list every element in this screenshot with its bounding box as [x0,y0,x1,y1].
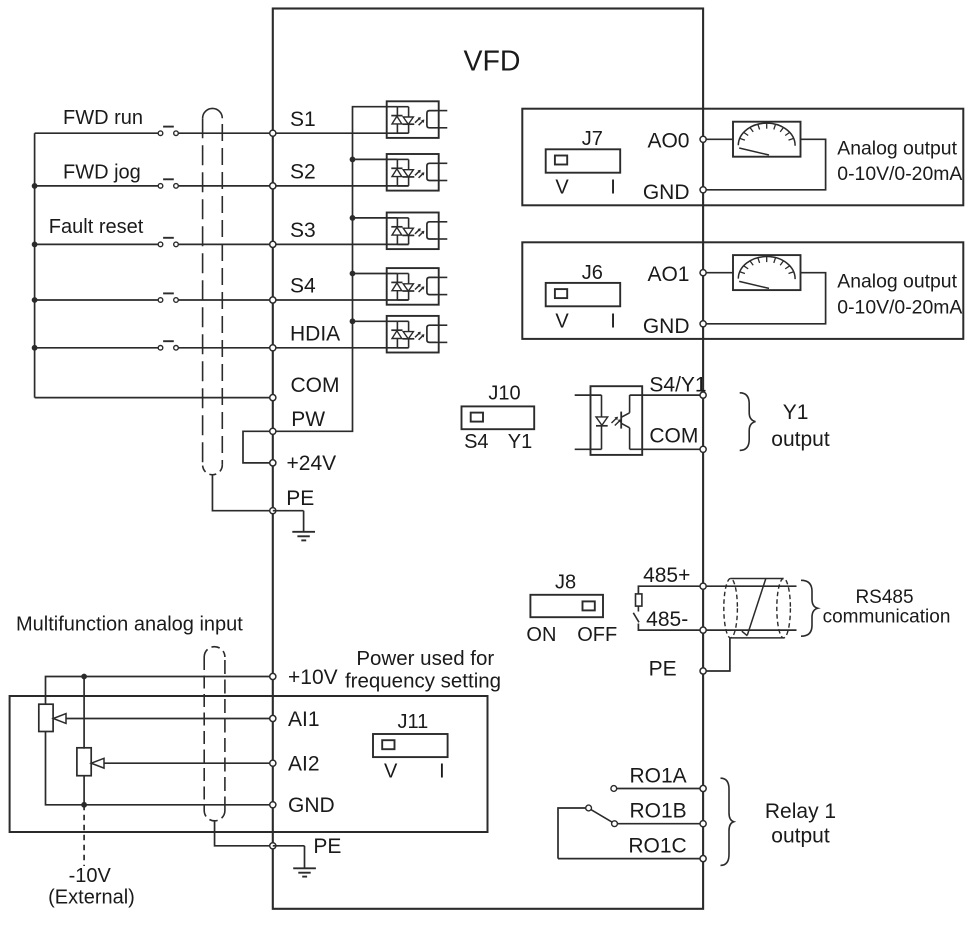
optocoupler S2 [387,154,448,191]
label AO0 [647,130,689,153]
svg-text:FWD run: FWD run [63,107,143,129]
terminal S3 [270,241,276,247]
label J10 [488,383,520,405]
svg-text:GND: GND [643,181,690,204]
label S4 [290,275,316,298]
svg-text:RS485: RS485 [855,587,913,608]
switch S3 input [158,238,178,247]
wire PW to opto bus [273,107,398,432]
svg-text:AI1: AI1 [288,708,320,731]
terminal S4/Y1 [700,392,706,398]
terminal HDIA [270,345,276,351]
svg-text:S4: S4 [464,431,488,453]
wire opto branch S3 [353,217,398,219]
wire AI2 with wiper arrow [91,758,273,768]
svg-text:V: V [384,761,398,783]
label 485+ [643,564,690,587]
wire S3 switch to terminal [179,243,273,245]
optocoupler HDIA [387,316,448,353]
svg-text:J11: J11 [398,711,429,733]
wire AO0 to meter [703,138,733,140]
junction pot2 / GND [81,802,87,808]
svg-text:0-10V/0-20mA: 0-10V/0-20mA [837,296,962,318]
analog output box AO1 [522,242,963,339]
terminal +24V [270,460,276,466]
wire 485+ through shield [703,585,796,587]
label Analog output (AO1) [837,271,957,293]
analog output box AO0 [522,109,963,206]
svg-text:S3: S3 [290,219,316,242]
wire switch to 485- [638,624,703,631]
label RO1A [630,764,687,787]
junction bus / S4 row [32,297,38,303]
terminal 485- [700,627,706,633]
label COM [291,374,340,397]
optocoupler S3 [387,213,448,250]
svg-text:AO0: AO0 [647,130,689,153]
svg-text:+24V: +24V [287,452,337,475]
label 485- [646,608,688,631]
label S2 [290,161,316,184]
svg-text:PW: PW [291,408,325,431]
label S3 [290,219,316,242]
jumper J10 [462,406,535,429]
wire COM [35,397,273,399]
label ON [526,624,556,646]
terminal GND (AO0) [700,187,706,193]
VFD enclosure box [273,9,703,909]
svg-text:I: I [610,177,616,199]
wire 485- through shield [703,629,796,631]
wire PW to +24V loop [243,431,273,463]
wire pot2 top [83,677,85,749]
svg-text:GND: GND [643,315,690,338]
wire S4 switch to terminal [179,299,273,301]
svg-text:COM: COM [649,425,698,448]
wire shield drain to PE [703,638,730,671]
svg-text:output: output [771,825,830,848]
svg-text:J8: J8 [555,571,576,593]
label frequency setting [345,669,501,692]
svg-text:S4: S4 [290,275,316,298]
switch S4 input [158,293,178,302]
label Y1 (J10) [508,431,532,453]
label Y1 output line2 [771,428,830,451]
label GND (analog) [288,794,335,817]
terminal AI2 [270,760,276,766]
wire opto branch S2 [353,158,398,160]
wire RO1B [617,823,703,825]
label V (J11) [384,761,398,783]
jumper J7 [546,149,621,172]
svg-text:PE: PE [649,658,677,681]
svg-text:AO1: AO1 [647,263,689,286]
shielded cable (analog inputs) [204,647,225,821]
svg-text:frequency setting: frequency setting [345,669,501,692]
label GND (AO0) [643,181,690,204]
wire S1 from bus to switch [35,132,158,134]
junction bus / HDIA row [32,345,38,351]
terminal PE (RS485) [700,668,706,674]
label -10V [69,865,112,887]
wire HDIA terminal to optocoupler [273,347,409,349]
wire relay common [558,808,586,859]
terminal PE [270,508,276,514]
terminal S1 [270,130,276,136]
svg-text:J6: J6 [582,262,603,284]
label RO1C [628,834,686,857]
svg-text:0-10V/0-20mA: 0-10V/0-20mA [837,163,962,185]
svg-text:Relay 1: Relay 1 [765,800,836,823]
wire S3 from bus to switch [35,243,158,245]
svg-text:Power used for: Power used for [356,647,494,670]
label +10V [288,666,338,689]
svg-text:ON: ON [526,624,556,646]
label 0-10V/0-20mA (AO0) [837,163,962,185]
svg-text:(External): (External) [48,886,135,908]
wire pot1 bottom to GND [46,732,273,805]
shielded cable (digital inputs) [203,108,223,474]
optocoupler S4 [387,268,448,305]
svg-text:I: I [610,310,616,332]
wire -10V external (dashed) [83,805,85,866]
jumper J6 [546,283,621,306]
potentiometer 1 (AI1) [39,704,53,731]
svg-text:-10V: -10V [69,865,112,887]
terminal PE (analog) [270,843,276,849]
wire resistor stub [637,606,639,611]
junction opto bus / S2 [350,157,356,163]
svg-text:OFF: OFF [577,624,617,646]
label OFF [577,624,617,646]
wire S1 terminal to optocoupler [273,132,409,134]
label Analog output (AO0) [837,137,957,159]
terminal RO1B [700,821,706,827]
svg-text:S1: S1 [290,108,316,131]
label communication [823,607,951,628]
wire meter to GND (AO0) [703,139,826,190]
label J6 [582,262,603,284]
wire HDIA switch to terminal [179,347,273,349]
svg-text:HDIA: HDIA [290,323,340,346]
label Multifunction analog input [16,613,243,635]
svg-text:Fault reset: Fault reset [49,216,144,238]
label RO1B [630,800,687,823]
svg-text:485+: 485+ [643,564,690,587]
terminal COM [270,395,276,401]
label AI2 [288,753,320,776]
label S4/Y1 [649,373,706,396]
terminal RO1C [700,856,706,862]
wire RO1A [617,788,704,790]
wire COM output [630,448,704,450]
svg-text:J7: J7 [582,128,603,150]
svg-text:Multifunction analog input: Multifunction analog input [16,613,243,635]
brace Relay 1 [721,778,734,865]
relay contact RO1A end [611,786,617,792]
svg-text:AI2: AI2 [288,753,320,776]
wire AO1 to meter [703,272,733,274]
wire S1 switch to terminal [179,132,273,134]
terminal +10V [270,673,276,679]
label J11 [398,711,429,733]
ground symbol PE [292,511,315,541]
wire AI1 with wiper arrow [53,714,272,724]
terminal RO1A [700,785,706,791]
wire S3 terminal to optocoupler [273,243,409,245]
junction bus / S2 row [32,183,38,189]
svg-text:GND: GND [288,794,335,817]
terminal GND (AO1) [700,321,706,327]
svg-text:Analog output: Analog output [837,271,957,293]
wire pot2 bottom [83,775,85,804]
svg-text:RO1B: RO1B [630,800,687,823]
label Relay output [771,825,830,848]
wire S4/Y1 [630,394,704,396]
wire 485+ to resistor [638,586,703,594]
svg-text:S4/Y1: S4/Y1 [649,373,706,396]
wire S2 terminal to optocoupler [273,185,409,187]
svg-text:RO1A: RO1A [630,764,687,787]
resistor (terminating) [636,594,642,606]
svg-text:communication: communication [823,607,951,628]
label S4 (J10) [464,431,488,453]
svg-text:V: V [555,177,569,199]
optocoupler S1 [387,101,448,138]
wire PE to ground [273,510,304,512]
wire +10V [46,677,273,705]
terminal S2 [270,183,276,189]
label PE (analog) [313,835,341,858]
brace RS485 [801,580,818,636]
terminal 485+ [700,583,706,589]
label (External) [48,886,135,908]
junction opto bus / HDIA [350,318,356,324]
svg-text:S2: S2 [290,161,316,184]
label GND (AO1) [643,315,690,338]
wire PE to ground (analog) [273,845,305,847]
label HDIA [290,323,340,346]
jumper J8 [530,595,603,617]
wire S4 from bus to switch [35,299,158,301]
wire S2 from bus to switch [35,185,158,187]
terminal COM output [700,446,706,452]
label FWD run [63,107,143,129]
label FWD jog [63,161,141,183]
wire HDIA from bus to switch [35,347,158,349]
label 0-10V/0-20mA (AO1) [837,296,962,318]
label PE (RS485) [649,658,677,681]
label COM output [649,425,698,448]
twisted pair shield (RS485) [724,579,791,638]
label J8 [555,571,576,593]
meter AO0 [733,122,801,157]
switch HDIA input [158,341,178,350]
switch S1 input [158,127,178,136]
switch S2 input [158,179,178,188]
label Y1 output line1 [783,401,809,424]
meter AO1 [733,255,801,290]
svg-text:Analog output: Analog output [837,137,957,159]
svg-text:Y1: Y1 [783,401,809,424]
brace Y1 output [740,393,756,451]
junction bus / S3 row [32,242,38,248]
wire S2 switch to terminal [179,185,273,187]
svg-text:PE: PE [286,487,314,510]
label VFD [464,46,521,78]
svg-text:VFD: VFD [464,46,521,78]
svg-text:+10V: +10V [288,666,338,689]
svg-text:PE: PE [313,835,341,858]
jumper J11 [373,734,448,757]
label PW [291,408,325,431]
label I (J6) [610,310,616,332]
svg-text:RO1C: RO1C [628,834,686,857]
junction opto bus / S4 [350,271,356,277]
optocoupler Y1 output [575,386,643,455]
svg-text:J10: J10 [488,383,520,405]
terminal AO0 [700,136,706,142]
label J7 [582,128,603,150]
junction pot2 / +10V [81,674,87,680]
label V (J7) [555,177,569,199]
svg-text:V: V [555,310,569,332]
label AO1 [647,263,689,286]
terminal GND (analog) [270,802,276,808]
analog input box [10,696,488,832]
label AI1 [288,708,320,731]
terminal S4 [270,297,276,303]
wire S4 terminal to optocoupler [273,299,409,301]
label I (J11) [439,761,445,783]
label +24V [287,452,337,475]
svg-text:output: output [771,428,830,451]
junction opto bus / S3 [350,215,356,221]
label I (J7) [610,177,616,199]
svg-text:485-: 485- [646,608,688,631]
label Power used for [356,647,494,670]
wire opto branch S4 [353,273,398,275]
svg-text:Y1: Y1 [508,431,532,453]
label S1 [290,108,316,131]
wire left common bus [34,133,36,397]
label RS485 [855,587,913,608]
relay pivot contact [586,805,592,811]
switch (termination) [633,613,639,623]
label PE [286,487,314,510]
wire cable2 shield to PE [215,821,273,846]
label Fault reset [49,216,144,238]
svg-text:I: I [439,761,445,783]
terminal AI1 [270,715,276,721]
terminal AO1 [700,270,706,276]
label V (J6) [555,310,569,332]
terminal PW [270,428,276,434]
relay switch arm [591,810,612,823]
relay contact RO1B end [612,821,618,827]
wire opto branch HDIA [353,320,398,322]
label Relay 1 [765,800,836,823]
wire RO1C [558,858,703,860]
svg-text:FWD jog: FWD jog [63,161,141,183]
potentiometer 2 (AI2) [77,748,91,776]
wire meter to GND (AO1) [703,273,826,324]
svg-text:COM: COM [291,374,340,397]
wire cable shield to PE [212,475,272,511]
ground symbol PE (analog) [293,846,316,877]
